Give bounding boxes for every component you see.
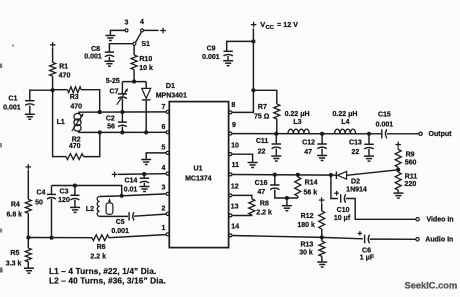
svg-text:C14: C14 [124,177,137,184]
node A junction [51,88,55,92]
svg-text:2: 2 [161,205,165,212]
wire C16 stub [274,175,276,185]
svg-text:C11: C11 [256,138,269,145]
svg-text:Audio In: Audio In [425,237,453,244]
wire R14 bottom stub [297,196,299,198]
svg-text:180 k: 180 k [297,222,315,229]
svg-text:C5: C5 [116,219,125,226]
svg-text:13: 13 [231,204,239,211]
wire R2 to node C [84,132,100,156]
wire C4 top stub [51,186,53,195]
svg-text:0.001: 0.001 [376,122,394,129]
ground R5 [24,267,34,269]
svg-text:470: 470 [59,73,71,80]
svg-text:11: 11 [232,162,240,169]
svg-text:12: 12 [231,183,239,190]
svg-text:R1: R1 [59,64,68,71]
wire C9 branch [227,41,254,51]
wire R14 top stub [297,175,299,177]
wire R7 branch [253,90,276,104]
svg-text:R10: R10 [139,56,152,63]
pin 7 circle [166,110,169,113]
wire S1 to R10 [133,45,135,55]
svg-text:6.8 k: 6.8 k [7,211,23,218]
wire C15 to output [387,133,419,135]
svg-text:L1: L1 [57,119,65,126]
svg-text:30 k: 30 k [299,250,313,257]
wire pin7 line [78,111,166,113]
node C2 top [120,110,124,114]
svg-text:4: 4 [140,19,144,26]
svg-text:S1: S1 [141,41,150,48]
svg-text:470: 470 [69,143,81,150]
svg-text:C15: C15 [378,112,391,119]
terminal Video In [416,218,419,221]
node R9 R11 junction [396,168,400,172]
svg-text:3: 3 [161,185,165,192]
wire C4 to R6 line [51,199,53,238]
capacitor C3 [70,194,79,196]
wire C16 bottom [275,190,298,198]
resistor R6 [92,235,109,241]
capacitor C7 (5-25 trimmer) [118,93,127,95]
wire C13 stub [368,134,370,144]
svg-text:0.001: 0.001 [3,104,21,111]
wire pin10 to ground [232,154,253,162]
svg-text:0.01: 0.01 [124,187,138,194]
node B junction (pin7 line) [98,110,102,114]
node C junction (pin6 line) [98,130,102,134]
switch S1 arm [136,32,142,42]
svg-text:0.22 μH: 0.22 μH [285,111,310,118]
pin 6 circle [166,131,169,134]
svg-text:U1: U1 [194,166,203,173]
wire D1 to pin6 line [145,100,147,132]
switch S1 contact 4 [141,29,144,32]
svg-text:= 12 V: = 12 V [277,20,298,29]
svg-text:C9: C9 [207,46,216,53]
pin 2 circle [166,212,169,215]
scan artifact edge marks [0,64,2,69]
svg-text:L1 – 4 Turns, #22, 1/4” Dia.: L1 – 4 Turns, #22, 1/4” Dia. [49,266,156,276]
svg-text:MC1374: MC1374 [185,176,212,183]
svg-text:50: 50 [35,200,43,207]
svg-text:D1: D1 [166,83,175,90]
wire R7 to output line [276,119,278,134]
ground C12 [317,155,327,157]
ground C16-R14 [282,205,292,207]
ground C14 [140,186,150,188]
svg-text:R6: R6 [97,244,106,251]
capacitor C13 [364,143,373,145]
pin 5 circle [166,151,169,154]
power + (R12 top) [319,199,325,201]
svg-text:2.2 k: 2.2 k [90,253,106,260]
svg-text:Video In: Video In [426,217,453,224]
svg-text:R8: R8 [260,201,269,208]
resistor R2 [66,154,84,160]
wire S1 common to C8 [109,44,132,52]
resistor R7 [274,104,280,119]
pin 4 circle [166,172,169,175]
svg-text:R4: R4 [11,202,20,209]
power + (R4 top) [26,166,32,168]
pin 10 circle [229,153,232,156]
wire pin14 line [232,236,322,238]
wire C9 to ground [227,56,229,60]
svg-text:120: 120 [58,197,70,204]
svg-text:14: 14 [231,223,239,230]
svg-text:C3: C3 [60,189,69,196]
wire left rail node A to R2 [52,90,54,157]
svg-text:L3: L3 [293,119,301,126]
svg-text:2.2 k: 2.2 k [256,209,272,216]
node C12 junction [320,132,324,136]
svg-text:V: V [260,20,265,29]
wire output line pin9 to C15 [232,133,381,135]
capacitor C1 [25,100,34,102]
inductor L1 [78,112,80,114]
L2 tuning slug [106,203,113,214]
svg-text:47: 47 [304,149,312,156]
wire + to R1 [52,48,54,63]
wire C8 to ground [108,57,110,61]
wire C11 stub [275,134,277,144]
svg-text:10 k: 10 k [139,65,153,72]
capacitor C10 polarity + [334,192,339,194]
switch S1 contact 3 [125,29,128,32]
ground C3 [70,206,80,208]
svg-text:22: 22 [258,149,266,156]
svg-text:C6: C6 [362,247,371,254]
wire bias line [122,81,146,83]
wire audio to C6 [322,237,363,238]
capacitor C9 [224,50,233,52]
svg-text:9: 9 [232,122,236,129]
wire R8 to pin13 [232,214,252,217]
node C14 junction [142,172,146,176]
switch S1 common contact [133,42,136,45]
wire C14 stub [143,174,145,178]
svg-text:C16: C16 [255,180,268,187]
svg-text:47: 47 [257,189,265,196]
svg-text:R12: R12 [301,213,314,220]
C7 trimmer arrow [117,89,128,105]
power + Vcc [251,24,257,26]
node pin3 junction [120,194,124,198]
wire node A to C1 [30,90,53,100]
wire pin5 to ground [146,153,166,159]
wire R3 to node B [81,90,100,112]
svg-text:C8: C8 [91,46,100,53]
pin 14 circle [229,234,232,237]
resistor R14 [295,177,301,196]
svg-text:C13: C13 [349,139,362,146]
wire C1 to ground [29,106,31,114]
svg-text:4: 4 [161,165,165,172]
wire D1 top stub [145,82,147,89]
node R12-R13 junction [320,235,324,239]
wire pin12 to R8 [232,195,252,199]
wire C7 top stub [121,82,123,94]
svg-text:L4: L4 [341,119,349,126]
L2 slug arrow [109,199,111,204]
wire R10 to bias node [133,70,135,82]
svg-text:22: 22 [352,149,360,156]
capacitor C2 [118,121,127,123]
svg-text:3: 3 [124,19,128,26]
wire + to R4 [27,170,29,199]
wire R5 to ground [27,262,29,268]
wire rail corner to R2 [52,156,66,158]
wire pin3 riser [52,186,122,196]
resistor R4 [25,199,31,213]
wire pin11 line [232,174,336,177]
svg-text:R3: R3 [70,94,79,101]
wire C13 to ground [368,149,370,156]
svg-text:7: 7 [161,104,165,111]
svg-text:560: 560 [405,159,417,166]
capacitor C16 [270,184,279,186]
wire ground stub C16-R14 [286,198,288,205]
svg-text:1N914: 1N914 [346,186,367,193]
wire C5 to pin2 [134,214,166,216]
ground C1 [25,113,35,115]
svg-text:R11: R11 [405,174,418,181]
wire C14 to ground [143,183,145,186]
svg-text:MPN3401: MPN3401 [156,92,187,99]
svg-text:8: 8 [231,102,235,109]
svg-text:0.001: 0.001 [84,54,102,61]
pin 1 circle [166,233,169,236]
resistor R13 [319,241,325,256]
capacitor C14 [140,177,149,179]
ground R13 [317,261,327,263]
wire C7 bottom stub [121,98,123,112]
wire R6 left [28,237,92,239]
resistor R11 [395,172,401,190]
ground C8 [104,60,114,62]
wire pin3 line [122,194,166,196]
svg-text:Output: Output [429,131,453,138]
inductor L4 [335,129,356,134]
svg-text:10 μf: 10 μf [334,215,351,222]
pin 11 circle [229,173,232,176]
node C9 junction [251,39,255,43]
diode D2 1N914 [335,172,337,179]
svg-text:5-25: 5-25 [106,78,120,85]
svg-text:3.3 k: 3.3 k [6,261,22,268]
ground switch contact 3 [105,35,115,37]
capacitor C12 [317,143,326,145]
node R6 left junction [26,235,30,239]
svg-text:75 Ω: 75 Ω [254,114,270,121]
svg-text:R5: R5 [10,250,19,257]
power +V symbol (R1 top) [50,44,56,46]
wire C6 to audio terminal [370,238,416,240]
resistor R1 [50,62,56,76]
power + (pin4 feed) [112,173,118,175]
wire + to R12 [321,203,323,211]
resistor R3 [68,87,82,93]
svg-text:CC: CC [266,25,275,31]
svg-text:470: 470 [70,103,82,110]
wire C3 to ground [74,200,76,207]
terminal Output [419,132,422,135]
wire C11 to ground [275,149,277,156]
wire D2 to R9 junction [347,170,399,176]
svg-text:D2: D2 [351,179,360,186]
wire pin6 line [78,131,166,133]
capacitor C6 polarity + [358,232,363,234]
wire C2 top stub [121,112,123,122]
wire C12 stub [321,134,323,144]
capacitor C11 [272,143,281,145]
ground pin5 [141,159,151,161]
svg-text:C2: C2 [106,116,115,123]
inductor L2 [97,197,99,217]
ground C13 [364,155,374,157]
node C3 junction [73,183,77,187]
svg-text:C4: C4 [36,190,45,197]
node R14 junction [296,173,300,177]
pin 8 circle [229,111,232,114]
wire R11 to ground [397,190,399,192]
svg-text:1: 1 [161,225,165,232]
inductor L3 [288,129,309,134]
svg-text:L2 – 40 Turns, #36, 3/16” Dia.: L2 – 40 Turns, #36, 3/16” Dia. [49,276,166,286]
wire C10 branch down [331,175,338,199]
capacitor C8 [105,51,114,53]
capacitor C15 [381,129,383,138]
svg-text:6: 6 [161,124,165,131]
diode D1 MPN3401 [142,88,151,98]
wire R12 to junction [321,229,323,238]
wire C3 stub [74,186,76,196]
resistor R5 [25,248,31,262]
node D1 pin6 junction [144,130,148,134]
svg-text:0.001: 0.001 [202,54,220,61]
svg-text:R7: R7 [258,104,267,111]
svg-text:R14: R14 [305,180,318,187]
wire Vcc rail [252,28,254,90]
wire L2 bottom to C5 [100,215,128,217]
wire C2 bottom stub [121,126,123,132]
pin 9 circle [229,132,232,135]
svg-text:R9: R9 [406,152,415,159]
svg-text:220: 220 [405,181,417,188]
svg-text:10: 10 [231,142,239,149]
capacitor C4 [47,193,56,195]
node C16 junction [273,173,277,177]
power + (switch feed) [160,30,166,32]
wire R9-R11 link [397,167,399,172]
wire R13 to ground [321,256,323,261]
svg-text:0.001: 0.001 [111,228,129,235]
svg-text:L2: L2 [86,206,94,213]
resistor R9 [395,149,401,167]
node C4 bottom junction [49,236,53,240]
svg-text:C10: C10 [337,207,350,214]
wire contact3 to ground [110,30,125,35]
ground R11 [393,192,403,194]
svg-text:5: 5 [161,145,165,152]
svg-text:56: 56 [107,123,115,130]
svg-text:C7: C7 [110,89,119,96]
wire + to R9 [397,148,399,150]
wire C12 to ground [321,149,323,155]
resistor R10 [131,55,137,70]
svg-text:56 k: 56 k [303,189,317,196]
wire junction to R13 [321,237,323,241]
wire pin4 line [118,173,166,176]
capacitor C6 [364,235,366,244]
node C2 bottom [120,130,124,134]
L1 adjust arrow [72,114,83,132]
svg-text:1 μF: 1 μF [360,255,375,262]
pin 12 circle [229,194,232,197]
ground C11 [271,155,281,157]
node C13 junction [367,132,371,136]
wire node A to R3 [53,89,68,91]
node bias junction [132,80,136,84]
svg-text:C1: C1 [8,95,17,102]
svg-text:R13: R13 [300,242,313,249]
wire R1 to node A [52,76,54,90]
wire pin8 feed [232,90,254,112]
node C11 junction [274,132,278,136]
op-amp U1 MC1374 body [169,102,228,248]
resistor R12 [319,211,325,229]
wire R6 to pin1 [109,235,166,238]
terminal Audio In [416,238,419,241]
svg-text:SeekIC.com: SeekIC.com [405,280,458,290]
ground C9 [223,60,233,62]
pin 3 circle [166,192,169,195]
power + (R9 top) [395,144,401,146]
wire R4 to R5 [27,213,29,248]
wire contact4 to + [144,29,159,31]
capacitor C10 [340,194,342,203]
ground pin10 [248,162,258,164]
pin 13 circle [229,214,232,217]
node C16-R14 ground junction [285,196,289,200]
node R7 junction [251,88,255,92]
svg-text:C12: C12 [302,139,315,146]
svg-text:0.22 μH: 0.22 μH [333,111,358,118]
wire L2 top [100,195,122,198]
node C10 junction [329,173,333,177]
resistor R8 [249,199,255,215]
wire C10 to video line [346,199,416,220]
capacitor C5 [128,212,130,220]
